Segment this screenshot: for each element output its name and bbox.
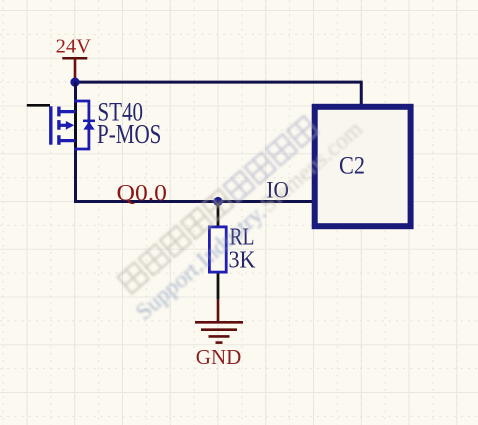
wire source to Q0.0 rail	[74, 139, 77, 203]
wire gate pin	[27, 104, 50, 107]
svg-text:GND: GND	[196, 345, 242, 369]
component C2	[315, 107, 411, 226]
ground GND stem	[217, 299, 220, 321]
stub source	[59, 139, 76, 142]
transistor ST40 P-MOS	[51, 99, 95, 149]
pin resistor top	[217, 202, 220, 227]
stub middle with arrow	[59, 124, 67, 127]
junction J2	[213, 197, 222, 206]
wire drain vertical	[74, 82, 77, 112]
channel segment middle	[57, 120, 60, 130]
body diode loop	[74, 101, 89, 149]
wire 24V rail horizontal	[75, 81, 361, 84]
channel segment bottom	[57, 135, 60, 145]
junction J1	[70, 78, 79, 87]
svg-text:24V: 24V	[56, 36, 92, 58]
stub drain	[59, 110, 76, 113]
gate bar	[49, 106, 52, 144]
svg-text:Q0.0: Q0.0	[117, 181, 168, 206]
watermark	[118, 116, 368, 325]
diode cathode bar	[83, 120, 95, 123]
wire to C2 top	[360, 81, 363, 107]
diode triangle	[83, 122, 94, 130]
resistor RL	[209, 227, 226, 272]
svg-text:P-MOS: P-MOS	[97, 119, 161, 149]
wire Q0.0/IO horizontal	[74, 200, 313, 203]
power symbol 24V	[62, 58, 87, 82]
channel segment top	[57, 107, 60, 117]
ground GND bars	[195, 322, 243, 342]
pin drain-source vertical (black)	[74, 99, 77, 148]
pin resistor bottom	[217, 274, 220, 300]
